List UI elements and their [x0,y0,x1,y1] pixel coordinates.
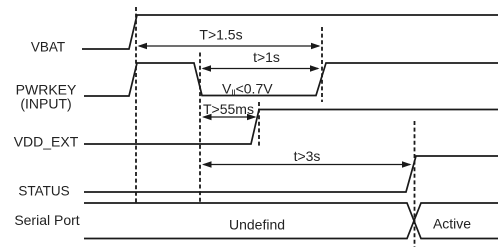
node guide dashed line 2 (PWRKEY fall) [199,53,201,204]
wire measure arrow t>3s [202,161,412,167]
wire measure arrow t>1s [202,65,320,71]
svg-text:t>3s: t>3s [294,148,321,164]
svg-text:STATUS: STATUS [18,184,69,199]
wire measure arrow T>1.5s [138,43,321,49]
svg-text:Serial Port: Serial Port [14,212,79,228]
wire VDD_EXT waveform [84,110,498,145]
svg-text:Undefind: Undefind [229,217,285,233]
wire measure arrow T>55ms [202,114,257,120]
wire STATUS waveform [84,156,498,192]
wire Serial Port bus bottom [84,203,498,239]
wire VBAT waveform [82,15,498,49]
svg-text:(INPUT): (INPUT) [20,96,71,112]
wire PWRKEY waveform [84,63,498,96]
node guide dashed line 5 (VDD_EXT rise) [258,102,260,146]
node PWRKEY (INPUT) label [16,82,77,112]
node guide dashed line 4 (STATUS rise) [414,121,416,247]
node guide dashed line 1 (VBAT rise) [135,7,137,203]
svg-text:T>1.5s: T>1.5s [199,27,242,43]
node guide dashed line 3 (PWRKEY release) [321,27,323,102]
svg-text:Active: Active [433,216,471,232]
svg-text:VIL<0.7V: VIL<0.7V [222,81,273,98]
svg-text:t>1s: t>1s [253,49,280,65]
svg-text:VDD_EXT: VDD_EXT [14,134,79,150]
wire Serial Port bus top [84,203,498,239]
svg-text:VBAT: VBAT [31,40,65,55]
